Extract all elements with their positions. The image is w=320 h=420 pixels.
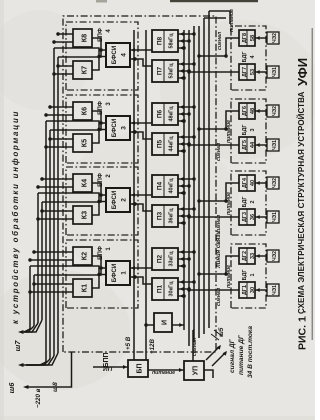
wire БФСИ3 to П5	[130, 130, 152, 139]
svg-text:К2: К2	[80, 252, 89, 260]
svg-text:питание: питание	[152, 370, 175, 376]
wire И input stub	[144, 323, 154, 327]
svg-text:БФСИ: БФСИ	[111, 190, 118, 209]
block К3	[73, 206, 92, 224]
wire сигнал feed group 1	[187, 288, 239, 292]
svg-text:53кГц: 53кГц	[169, 63, 175, 79]
block П8	[152, 30, 178, 52]
svg-text:сигнал: сигнал	[217, 31, 223, 50]
svg-text:ДГ1: ДГ1	[242, 285, 248, 295]
wire bus drop B to БФСИ3	[46, 121, 106, 131]
wire питание feed group 1	[197, 256, 239, 276]
group dash box БДГ3	[231, 99, 266, 163]
block П5	[152, 133, 178, 155]
block ДГ2	[239, 248, 255, 264]
svg-text:ш5: ш5	[218, 327, 225, 337]
svg-text:ЧЭ2: ЧЭ2	[272, 251, 278, 261]
block БФСИ4	[106, 43, 130, 67]
block К2	[73, 247, 92, 265]
svg-text:58кГц: 58кГц	[169, 33, 175, 49]
wire +5В rail	[133, 30, 135, 360]
wire: top bus lines to ш6/ш7	[24, 48, 58, 365]
svg-text:К5: К5	[80, 139, 89, 147]
svg-text:сигнал: сигнал	[216, 142, 222, 161]
svg-text:ЧЭ1: ЧЭ1	[272, 285, 278, 295]
wire К6 control stubs	[44, 105, 73, 117]
svg-text:УФИ: УФИ	[295, 58, 310, 86]
block ДГ5	[239, 137, 255, 153]
wire БФСИ3 to П6	[130, 121, 152, 125]
wire сигнал feed group 4	[187, 70, 239, 74]
big unit frame БПП	[63, 16, 216, 352]
svg-text:40: 40	[250, 180, 256, 186]
wire БФСИ4 to П7	[130, 57, 152, 66]
block ЧЭ1 group 4	[267, 66, 279, 78]
svg-text:+12В: +12В	[149, 339, 156, 354]
wire ЧЭ1 to ДГ3	[255, 215, 267, 219]
group 4 dash box БПФ4	[66, 22, 138, 90]
block П6	[152, 103, 178, 125]
block П3	[152, 205, 178, 227]
block К1	[73, 279, 92, 297]
wire П7 stubs to линия связи	[178, 62, 196, 80]
wire bus drop A to БФСИ2	[42, 193, 106, 202]
block ДГ4	[239, 175, 255, 191]
svg-text:ЧЭ1: ЧЭ1	[272, 212, 278, 222]
svg-text:П5: П5	[157, 139, 164, 148]
svg-text:ш6: ш6	[7, 382, 16, 394]
svg-text:К7: К7	[80, 66, 89, 74]
wire сигнал feed group 2	[187, 215, 239, 219]
svg-text:питание: питание	[226, 120, 232, 143]
wire К3 control stubs	[36, 209, 73, 221]
svg-text:ш7: ш7	[13, 340, 22, 352]
svg-text:2: 2	[106, 174, 112, 178]
svg-text:~220 в: ~220 в	[35, 388, 42, 408]
wire К8 control stubs	[52, 32, 73, 44]
wire П1 stubs to линия связи	[178, 280, 196, 298]
wire БФСИ2 to П3	[130, 202, 152, 211]
svg-text:питание: питание	[226, 265, 232, 288]
svg-text:питание: питание	[226, 192, 232, 215]
svg-text:ДГ5: ДГ5	[242, 140, 248, 150]
svg-text:33кГц: 33кГц	[169, 251, 175, 267]
svg-text:ДГ2: ДГ2	[242, 251, 248, 261]
wire ЧЭ2 to ДГ2	[255, 254, 267, 258]
svg-text:33: 33	[250, 253, 256, 259]
svg-text:1: 1	[250, 274, 256, 277]
wire БФСИ1 to П1	[130, 275, 152, 284]
svg-text:30: 30	[250, 287, 256, 293]
block БФСИ3	[106, 116, 130, 140]
group dash box БДГ4	[231, 26, 266, 90]
scan artifact right edge line	[312, 28, 313, 340]
svg-text:ЧЭ2: ЧЭ2	[272, 33, 278, 43]
block ДГ1	[239, 282, 255, 298]
svg-text:К3: К3	[80, 211, 89, 219]
group dash box БДГ1	[231, 244, 266, 308]
wire К2 to БФСИ1	[92, 256, 101, 268]
svg-text:3: 3	[250, 129, 256, 132]
connector ш6 arrow	[18, 363, 26, 367]
block П4	[152, 175, 178, 197]
svg-text:ЧЭ1: ЧЭ1	[272, 67, 278, 77]
block ДГ3	[239, 209, 255, 225]
svg-text:П6: П6	[157, 109, 164, 118]
group 1 dash box БПФ1	[66, 240, 138, 308]
svg-text:К4: К4	[80, 179, 89, 187]
svg-text:БП: БП	[137, 363, 144, 373]
svg-text:34 В пост.тока: 34 В пост.тока	[247, 326, 254, 378]
scan artifact top speckle	[96, 0, 107, 3]
wire сигнал feed group 3	[187, 143, 239, 147]
block ЧЭ1 group 2	[267, 211, 279, 223]
svg-text:ДГ4: ДГ4	[242, 178, 248, 188]
wire К7 control stubs	[52, 64, 73, 76]
wire bus drop B to БФСИ1	[30, 266, 106, 276]
wire +12В rail	[145, 30, 147, 360]
svg-text:СХЕМА ЭЛЕКТРИЧЕСКАЯ СТРУКТУР: СХЕМА ЭЛЕКТРИЧЕСКАЯ СТРУКТУРНАЯ УСТРОЙСТ…	[297, 91, 306, 314]
wire К4 to БФСИ2	[92, 183, 101, 195]
wire И to линия связи	[172, 323, 184, 327]
wire П4 stubs to линия связи	[178, 177, 196, 195]
wire К5 control stubs	[44, 137, 73, 149]
connector ш5 slash mark	[211, 330, 222, 340]
wire БП to УП питание	[148, 368, 184, 372]
wire ИП input to БП	[93, 365, 128, 369]
svg-text:П3: П3	[157, 211, 164, 220]
wire К2 control stubs	[28, 250, 73, 262]
svg-text:44: 44	[250, 141, 256, 148]
svg-text:к устройству обработки инфо: к устройству обработки информации	[11, 110, 20, 324]
svg-text:УП: УП	[193, 366, 200, 375]
wire bus drop A to БФСИ3	[50, 121, 106, 130]
svg-text:ДГ7: ДГ7	[242, 67, 248, 77]
block БП	[128, 360, 148, 377]
svg-text:2: 2	[121, 198, 128, 202]
svg-text:П1: П1	[157, 284, 164, 293]
wire ЧЭ1 to ДГ7	[255, 70, 267, 74]
svg-text:4: 4	[106, 29, 112, 33]
wire П3 stubs to линия связи	[178, 207, 196, 225]
svg-text:ЧЭ2: ЧЭ2	[272, 178, 278, 188]
block К8	[73, 29, 92, 47]
block ЧЭ2 group 2	[267, 177, 279, 189]
svg-text:ДГ3: ДГ3	[242, 212, 248, 222]
block ДГ7	[239, 64, 255, 80]
svg-text:БФСИ: БФСИ	[111, 45, 118, 64]
svg-text:П2: П2	[157, 254, 164, 263]
svg-text:+5 В: +5 В	[125, 336, 132, 350]
svg-text:44кГц: 44кГц	[169, 136, 175, 152]
wire П5 stubs to линия связи	[178, 135, 196, 153]
wire БФСИ2 to П4	[130, 193, 152, 197]
block К4	[73, 174, 92, 192]
block ЧЭ2 group 1	[267, 250, 279, 262]
block К6	[73, 102, 92, 120]
svg-text:48кГц: 48кГц	[169, 106, 175, 122]
svg-text:53: 53	[250, 69, 256, 75]
block БФСИ2	[106, 188, 130, 212]
wire К3 to БФСИ2	[92, 202, 99, 216]
svg-text:П8: П8	[157, 36, 164, 45]
block К5	[73, 134, 92, 152]
svg-text:линия связи: линия связи	[216, 231, 222, 269]
wire БФСИ1 to П2	[130, 266, 152, 270]
block ЧЭ1 group 3	[267, 139, 279, 151]
wire ш5 exit bundle	[206, 345, 227, 366]
svg-text:БДГ: БДГ	[242, 197, 248, 208]
wire ЧЭ2 to ДГ6	[255, 109, 267, 113]
block П7	[152, 60, 178, 82]
wire bus drop A to БФСИ1	[34, 266, 106, 275]
block ЧЭ2 group 3	[267, 105, 279, 117]
svg-text:П7: П7	[157, 66, 164, 75]
block УП	[184, 361, 204, 380]
svg-text:3: 3	[121, 126, 128, 130]
svg-text:30кГц: 30кГц	[169, 281, 175, 297]
svg-text:36: 36	[250, 214, 256, 220]
wire bus drop B to БФСИ2	[38, 193, 106, 203]
svg-text:ИП: ИП	[103, 366, 113, 373]
svg-text:4: 4	[250, 56, 256, 59]
block ЧЭ2 group 4	[267, 32, 279, 44]
svg-text:58: 58	[250, 35, 256, 41]
svg-text:БФСИ: БФСИ	[111, 263, 118, 282]
svg-text:40кГц: 40кГц	[169, 178, 175, 194]
svg-text:БДГ: БДГ	[242, 52, 248, 63]
wire УП lower tap	[204, 370, 213, 378]
svg-text:БДГ: БДГ	[242, 125, 248, 136]
block БФСИ1	[106, 261, 130, 285]
block К7	[73, 61, 92, 79]
svg-text:48: 48	[250, 108, 256, 114]
svg-text:2: 2	[250, 201, 256, 204]
svg-text:И: И	[162, 320, 169, 325]
wire ЧЭ1 to ДГ1	[255, 288, 267, 292]
svg-text:БФСИ: БФСИ	[111, 118, 118, 137]
wire ЧЭ1 to ДГ5	[255, 143, 267, 147]
wire К8 to БФСИ4	[92, 38, 101, 50]
svg-text:сигнал: сигнал	[192, 337, 198, 356]
wire БФСИ4 to П8	[130, 48, 152, 52]
group 2 dash box БПФ2	[66, 167, 138, 235]
svg-text:К8: К8	[80, 34, 89, 42]
wire К7 to БФСИ4	[92, 57, 99, 71]
wire ~220в mains	[23, 352, 72, 389]
connector ш7 arrow	[18, 330, 26, 334]
scan artifact top edge	[170, 0, 258, 2]
svg-text:3: 3	[106, 102, 112, 106]
block П1	[152, 278, 178, 300]
svg-text:сигнал ДГ: сигнал ДГ	[229, 338, 236, 373]
svg-text:К1: К1	[80, 284, 89, 292]
wire К6 to БФСИ3	[92, 111, 101, 123]
svg-text:1: 1	[121, 271, 128, 275]
wire bus drop A to БФСИ4	[58, 48, 106, 57]
svg-text:ДГ6: ДГ6	[242, 106, 248, 116]
wire УП output сигнал	[193, 330, 194, 361]
wire right hooks to БДГ4	[204, 11, 230, 24]
wire питание feed group 3	[197, 111, 239, 131]
block ДГ8	[239, 30, 255, 46]
wire К5 to БФСИ3	[92, 130, 99, 144]
block И	[154, 313, 172, 332]
group dash box БДГ2	[231, 171, 266, 235]
svg-text:К6: К6	[80, 107, 89, 115]
svg-text:ЧЭ2: ЧЭ2	[272, 106, 278, 116]
wire ЧЭ2 to ДГ4	[255, 181, 267, 185]
block ЧЭ1 group 1	[267, 284, 279, 296]
svg-text:ЧЭ1: ЧЭ1	[272, 140, 278, 150]
svg-text:ш8: ш8	[52, 382, 59, 392]
wire bus drop B to БФСИ4	[54, 48, 106, 58]
svg-text:П4: П4	[157, 181, 164, 190]
wire П6 stubs to линия связи	[178, 105, 196, 123]
svg-text:питание ДГ: питание ДГ	[238, 334, 245, 375]
wire К1 to БФСИ1	[92, 275, 99, 289]
wire К4 control stubs	[36, 177, 73, 189]
block П2	[152, 248, 178, 270]
svg-text:БДГ: БДГ	[242, 270, 248, 281]
svg-text:4: 4	[121, 53, 128, 57]
group 3 dash box БПФ3	[66, 95, 138, 163]
svg-text:сигнал: сигнал	[216, 287, 222, 306]
wire питание feed group 2	[197, 183, 239, 203]
wire линия связи bus lines	[184, 11, 209, 346]
svg-text:1: 1	[106, 247, 112, 251]
wire питание feed group 4	[197, 38, 239, 58]
wire К1 control stubs	[28, 282, 73, 294]
svg-text:ДГ8: ДГ8	[242, 33, 248, 43]
svg-text:РИС. 1 .: РИС. 1 .	[297, 310, 309, 350]
block ДГ6	[239, 103, 255, 119]
wire П2 stubs to линия связи	[178, 250, 196, 268]
wire П8 stubs to линия связи	[178, 32, 196, 50]
wire ЧЭ2 to ДГ8	[255, 36, 267, 40]
svg-text:36кГц: 36кГц	[169, 208, 175, 224]
